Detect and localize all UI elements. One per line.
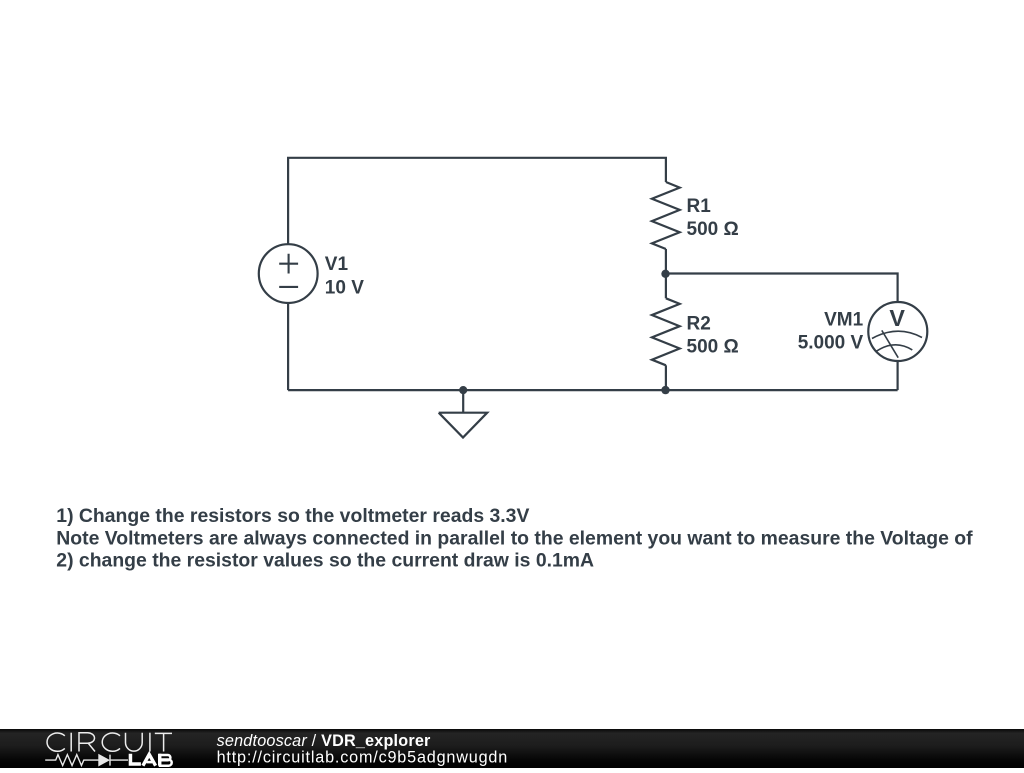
svg-text:V: V	[889, 305, 905, 331]
voltmeter VM1	[868, 302, 927, 361]
voltmeter V glyph	[889, 305, 905, 331]
bottom rail junction dot at R2	[661, 386, 669, 394]
label V1	[325, 254, 364, 299]
svg-text:10 V: 10 V	[325, 278, 364, 299]
svg-text:VM1: VM1	[824, 310, 864, 331]
svg-text:http://circuitlab.com/c9b5adgn: http://circuitlab.com/c9b5adgnwugdn	[217, 749, 508, 767]
wire: node A to voltmeter top	[666, 274, 898, 303]
voltage source V1	[259, 244, 318, 303]
CircuitLab logo wordmark CIRCUIT	[47, 733, 172, 752]
svg-text:sendtooscar / VDR_explorer: sendtooscar / VDR_explorer	[217, 732, 431, 750]
ground	[439, 390, 488, 437]
node A junction dot (R1/R2/VM branch)	[661, 270, 669, 278]
label VM1 / 5.000 V	[798, 310, 864, 354]
wire: V1 bottom lead	[287, 303, 289, 391]
label R1 / 500 ohm	[687, 196, 739, 240]
wire: top rail from V1 to R1	[288, 158, 666, 245]
CircuitLab logo LAB	[129, 754, 172, 766]
wire: R1 to node A	[665, 249, 667, 274]
resistor R1	[652, 182, 680, 249]
svg-text:500 Ω: 500 Ω	[687, 336, 739, 357]
svg-text:2) change the resistor values: 2) change the resistor values so the cur…	[56, 549, 594, 571]
svg-text:5.000 V: 5.000 V	[798, 333, 864, 354]
svg-text:R2: R2	[687, 313, 711, 334]
svg-text:500 Ω: 500 Ω	[687, 219, 739, 240]
footer bar	[0, 729, 1024, 768]
svg-text:1) Change the resistors so the: 1) Change the resistors so the voltmeter…	[56, 505, 529, 527]
wire: voltmeter bottom lead	[896, 361, 898, 390]
wire: node A to R2	[665, 274, 667, 299]
CircuitLab logo resistor+diode rule	[45, 755, 128, 766]
svg-text:Note Voltmeters are always con: Note Voltmeters are always connected in …	[56, 527, 973, 549]
label R2 / 500 ohm	[687, 313, 739, 357]
instruction text	[56, 505, 973, 571]
wire: bottom rail	[288, 389, 898, 391]
svg-text:V1: V1	[325, 254, 349, 275]
wire: R2 to bottom rail	[665, 365, 667, 390]
svg-text:R1: R1	[687, 196, 712, 217]
ground junction dot	[459, 386, 467, 394]
footer attribution line	[217, 732, 508, 767]
resistor R2	[652, 298, 680, 365]
